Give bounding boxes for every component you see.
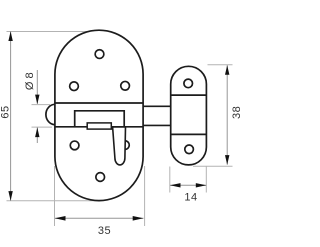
svg-text:35: 35	[98, 225, 111, 237]
svg-text:Ø 8: Ø 8	[24, 72, 36, 90]
svg-text:14: 14	[184, 191, 197, 203]
svg-text:38: 38	[231, 106, 243, 119]
svg-text:65: 65	[0, 105, 12, 118]
